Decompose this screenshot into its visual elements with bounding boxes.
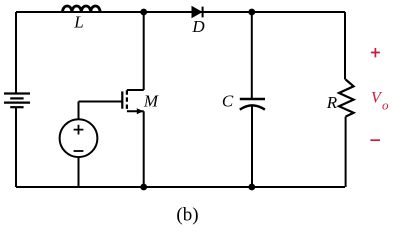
transistor M [122, 90, 143, 114]
node junction dot bottom capacitor [248, 184, 255, 191]
wire capacitor bottom [251, 105, 253, 187]
node junction dot bottom mosfet [140, 184, 147, 191]
label Vo (red) [371, 90, 389, 113]
label plus (red) [371, 48, 380, 57]
inductor L [63, 6, 101, 12]
svg-text:C: C [222, 92, 234, 111]
node junction dot top drain [140, 9, 147, 16]
node junction dot top capacitor [248, 9, 255, 16]
wire source-bottom of gate driver [78, 157, 80, 187]
svg-text:L: L [73, 13, 83, 32]
wire capacitor top [251, 12, 253, 99]
diode D [192, 7, 203, 18]
gate drive source [60, 119, 98, 157]
svg-text:(b): (b) [176, 205, 198, 226]
wire gate lead [79, 102, 123, 120]
wire mosfet source vertical [143, 111, 145, 187]
caption (b) [176, 205, 198, 226]
wire bottom rail [16, 186, 345, 188]
resistor R [339, 80, 354, 117]
label D [191, 17, 205, 36]
label C [222, 92, 234, 111]
label M [143, 92, 159, 111]
svg-text:M: M [143, 92, 159, 111]
wire right vertical bottom [345, 117, 347, 187]
svg-text:o: o [382, 98, 389, 113]
svg-text:D: D [191, 17, 205, 36]
wire left vertical top [15, 12, 17, 94]
battery source [4, 94, 30, 108]
wire drain vertical [143, 12, 145, 90]
capacitor C [240, 99, 265, 110]
wire top rail [16, 11, 345, 13]
label minus (red) [370, 139, 380, 141]
svg-text:R: R [326, 93, 338, 112]
wire left vertical bottom [15, 107, 17, 187]
label R [326, 93, 338, 112]
label L [73, 13, 83, 32]
wire right vertical top [344, 12, 346, 80]
